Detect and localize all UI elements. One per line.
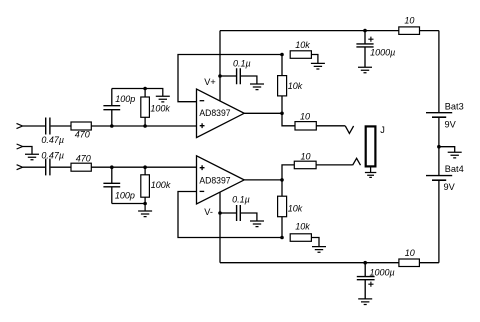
node bottom input A <box>110 165 114 169</box>
value label 10k <box>288 81 303 91</box>
value label 1000u bottom <box>370 267 395 277</box>
node positive rail <box>363 29 367 33</box>
svg-text:0.1µ: 0.1µ <box>233 59 251 69</box>
wire positive rail <box>220 30 439 32</box>
resistor 10k top feedback <box>278 55 287 114</box>
svg-text:9V: 9V <box>444 182 456 192</box>
capacitor 100p top <box>103 89 120 127</box>
wire <box>23 147 32 155</box>
battery Bat4 <box>426 176 452 181</box>
jack J label <box>380 125 385 135</box>
resistor 10k top gain <box>290 51 311 59</box>
value label 10 <box>405 248 415 258</box>
value label 470 bottom <box>76 154 91 164</box>
svg-text:0.1µ: 0.1µ <box>232 195 250 205</box>
plus mark 1000u bottom <box>368 282 373 287</box>
value label 0.1u bottom <box>232 195 250 205</box>
wire V- <box>219 192 221 263</box>
wire U1 output <box>244 112 282 114</box>
value label 10 <box>300 111 310 121</box>
resistor 10 top output <box>295 122 316 130</box>
wire U2 feedback <box>178 192 282 238</box>
svg-text:10: 10 <box>405 248 415 258</box>
value label 10k <box>295 40 310 50</box>
wire negative rail <box>220 262 439 264</box>
jack J body <box>366 126 376 166</box>
value label 10 <box>404 16 414 26</box>
jack ring contact <box>353 158 361 165</box>
capacitor 0.1u top <box>237 68 241 84</box>
ground jack <box>365 168 376 178</box>
node bottom input B <box>143 165 147 169</box>
plus mark 1000u top <box>368 37 373 42</box>
ground top filter <box>145 89 170 102</box>
wire <box>241 76 257 84</box>
node top filter <box>143 87 147 91</box>
svg-text:V-: V- <box>204 207 213 217</box>
svg-text:0.47µ: 0.47µ <box>41 135 64 145</box>
U2 V- label <box>204 207 213 217</box>
wire <box>439 147 455 153</box>
svg-text:V+: V+ <box>204 77 216 87</box>
battery Bat3 <box>426 113 452 118</box>
svg-text:100p: 100p <box>115 94 135 104</box>
svg-text:J: J <box>380 125 385 135</box>
value label 100k top <box>150 103 170 113</box>
svg-text:Bat3: Bat3 <box>445 101 464 111</box>
resistor 100k top <box>141 89 150 127</box>
node bottom filter <box>143 202 147 206</box>
input port IN-L <box>17 123 23 128</box>
value label 0.47u <box>41 135 64 145</box>
input port IN-R <box>17 165 23 170</box>
svg-text:470: 470 <box>75 130 90 140</box>
U2 plus pin mark <box>200 165 205 170</box>
svg-text:0.47µ: 0.47µ <box>41 150 64 160</box>
value label 10 <box>301 152 311 162</box>
resistor 100k bottom <box>141 167 150 203</box>
wire U1 feedback <box>178 55 282 102</box>
node negative rail <box>363 261 367 265</box>
value label 100p bottom <box>115 190 135 200</box>
wire right rail mid <box>438 118 440 175</box>
value label 10k <box>288 203 303 213</box>
ground 0.1u bottom <box>250 221 264 227</box>
wire <box>282 165 294 180</box>
resistor 470 top <box>71 122 91 130</box>
ground 1000u bottom <box>358 299 372 305</box>
ground 10k top <box>311 63 325 69</box>
value label 0.47u bottom <box>41 150 64 160</box>
wire <box>91 125 196 127</box>
resistor 10 negative rail <box>399 259 420 267</box>
resistor 10k bottom gain <box>290 234 311 242</box>
node U2 feedback <box>280 236 284 240</box>
ground 10k bottom <box>312 247 326 253</box>
wire <box>311 238 319 247</box>
svg-text:10k: 10k <box>288 203 303 213</box>
resistor 470 bottom <box>71 163 91 171</box>
svg-text:10k: 10k <box>288 81 303 91</box>
U1 plus pin mark <box>200 123 205 128</box>
wire <box>23 125 46 127</box>
value label 10k <box>295 222 310 232</box>
ground battery mid <box>448 152 462 158</box>
node V- <box>218 211 222 215</box>
U1 minus pin mark <box>200 100 205 102</box>
wire <box>112 88 145 90</box>
wire right rail upper <box>438 31 440 113</box>
Bat4 value 9V <box>444 182 456 192</box>
svg-text:1000µ: 1000µ <box>370 48 395 58</box>
capacitor C 0.47u top plates <box>46 118 50 135</box>
value label 0.1u top <box>233 59 251 69</box>
jack tip contact V <box>345 126 353 133</box>
wire <box>220 75 236 77</box>
value label 100k bottom <box>151 180 171 190</box>
ground middle input <box>25 154 39 160</box>
svg-text:10k: 10k <box>295 40 310 50</box>
resistor 10 positive rail <box>399 27 420 35</box>
node U2 output <box>280 178 284 182</box>
svg-text:10: 10 <box>301 152 311 162</box>
ground 0.1u top <box>250 84 264 90</box>
Bat3 value 9V <box>445 120 457 130</box>
wire <box>282 113 295 126</box>
svg-text:Bat4: Bat4 <box>445 164 464 174</box>
wire V+ <box>219 31 221 101</box>
node top input B <box>143 124 147 128</box>
value label 470 <box>75 130 90 140</box>
ground 1000u top <box>358 67 372 73</box>
svg-text:100k: 100k <box>151 180 171 190</box>
wire U2 output <box>244 179 282 181</box>
svg-text:100k: 100k <box>150 103 170 113</box>
svg-text:AD8397: AD8397 <box>199 108 230 118</box>
capacitor C 0.47u bottom plates <box>46 159 50 176</box>
svg-text:10: 10 <box>300 111 310 121</box>
wire right rail lower <box>438 181 440 263</box>
wire <box>51 125 71 127</box>
op-amp U2 AD8397 bottom <box>197 156 245 204</box>
input port GND (middle) <box>17 144 23 149</box>
svg-text:10k: 10k <box>295 222 310 232</box>
svg-text:1000µ: 1000µ <box>370 267 395 277</box>
value label 1000u top <box>370 48 395 58</box>
U1 V+ label <box>204 77 216 87</box>
Bat4 label <box>445 164 464 174</box>
node battery mid <box>437 145 441 149</box>
wire <box>311 55 318 64</box>
wire <box>316 125 345 127</box>
capacitor 1000u positive <box>356 31 373 68</box>
capacitor 0.1u bottom <box>237 205 241 221</box>
svg-text:9V: 9V <box>445 120 457 130</box>
node U1 output <box>280 112 284 116</box>
ground bottom filter <box>138 204 152 217</box>
wire <box>112 203 145 205</box>
wire <box>91 166 196 168</box>
resistor 10k bottom feedback <box>278 180 287 238</box>
node top input A <box>110 124 114 128</box>
U1 part label AD8397 <box>199 108 230 118</box>
svg-text:AD8397: AD8397 <box>199 175 230 185</box>
wire <box>220 212 236 214</box>
wire <box>23 166 45 168</box>
wire <box>316 164 353 166</box>
svg-text:10: 10 <box>404 16 414 26</box>
svg-text:470: 470 <box>76 154 91 164</box>
node V+ <box>218 74 222 78</box>
U2 part label AD8397 <box>199 175 230 185</box>
op-amp U1 AD8397 top <box>197 89 245 138</box>
U2 minus pin mark <box>200 190 205 192</box>
node U1 feedback <box>280 53 284 57</box>
resistor 10 bottom output <box>294 161 316 169</box>
wire <box>241 213 257 221</box>
value label 100p top <box>115 94 135 104</box>
capacitor 100p bottom <box>103 167 120 203</box>
capacitor 1000u negative <box>357 263 375 299</box>
Bat3 label <box>445 101 464 111</box>
wire <box>51 166 71 168</box>
svg-text:100p: 100p <box>115 190 135 200</box>
